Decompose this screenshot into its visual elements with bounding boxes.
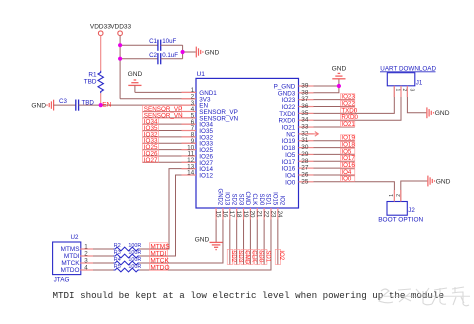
wire P_GND pin 39 <box>314 85 339 87</box>
pin 30 IO18 <box>282 144 314 152</box>
wire IO0 to J2 pin 1 <box>355 182 395 202</box>
svg-text:GND: GND <box>332 66 347 73</box>
svg-text:TBD: TBD <box>84 79 97 86</box>
junction P_GND node <box>337 84 341 88</box>
svg-text:IO0: IO0 <box>285 179 296 186</box>
junction C1 left rail <box>118 43 122 47</box>
ground (J1) <box>427 107 450 118</box>
svg-text:MTDI should be kept at a low e: MTDI should be kept at a low electric le… <box>53 290 444 301</box>
wire net IO17 stub <box>314 160 355 162</box>
wire net IO22 stub <box>314 106 355 108</box>
wire CLK pin 20 drop <box>249 220 251 265</box>
svg-text:IO0: IO0 <box>341 176 352 183</box>
wire SD2 pin 17 drop <box>229 220 231 265</box>
svg-text:SD2: SD2 <box>230 194 236 206</box>
svg-text:0.1uF: 0.1uF <box>162 52 178 59</box>
svg-text:MTDO: MTDO <box>150 264 169 271</box>
wire C2 left lead <box>120 58 158 60</box>
wire net RXD0 stub <box>314 119 355 121</box>
pin 12 IO27 <box>182 157 214 167</box>
net label IO4 <box>340 169 354 175</box>
svg-text:16: 16 <box>221 211 228 218</box>
svg-text:VDD33: VDD33 <box>90 24 111 31</box>
svg-text:CMD: CMD <box>244 250 250 264</box>
pin 7 IO35 <box>182 125 214 135</box>
no-connect marker pin 32 <box>306 132 318 137</box>
pin 1 GND1 <box>182 87 218 97</box>
wire net SENSOR_VN to pin 5 <box>143 117 196 119</box>
pin 31 IO19 <box>282 137 314 145</box>
wire net IO23 stub <box>314 99 355 101</box>
pin stub J1-2 <box>400 86 402 97</box>
svg-text:R3: R3 <box>114 250 121 256</box>
pin 3 EN <box>182 100 209 110</box>
net label TXD0 <box>340 107 354 113</box>
U2 pin 1 MTMS <box>61 244 93 254</box>
watermark <box>379 287 470 306</box>
net label MTDI <box>149 250 167 256</box>
pin 37 IO23 <box>282 96 314 104</box>
wire U2 pin to R3 <box>93 255 114 257</box>
pin 18 SD3 <box>235 194 243 220</box>
svg-text:J2: J2 <box>408 207 415 214</box>
pin 17 SD2 <box>228 194 236 220</box>
svg-text:SD1: SD1 <box>264 250 270 262</box>
ground (GND1 pin 1) <box>128 71 143 85</box>
wire EN junction to chip pin 3 <box>101 104 196 106</box>
wire U2 pin to R5 <box>93 269 114 271</box>
wire 3V3 rail to chip pin 2 <box>120 98 196 100</box>
svg-text:SD3: SD3 <box>237 250 243 262</box>
wire net TXD0 stub <box>314 112 355 114</box>
capacitor C3 TBD <box>59 98 94 111</box>
svg-text:2: 2 <box>401 89 407 92</box>
power port VDD33 (left) <box>90 24 111 36</box>
wire SD1 pin 22 drop <box>263 220 265 265</box>
pin 6 IO34 <box>182 119 214 129</box>
wire net IO34 to pin 6 <box>143 123 196 125</box>
net label CLK (rotated) <box>248 249 253 264</box>
svg-text:GND: GND <box>435 110 450 117</box>
net label IO16 <box>340 162 354 168</box>
wire stem to ground <box>338 79 340 86</box>
pin stub J1-3 <box>406 86 408 97</box>
wire RXD0 to J1 pin 2 <box>355 86 401 120</box>
pin 13 IO14 <box>182 163 214 173</box>
net label IO32 <box>142 131 158 137</box>
net label IO17 <box>340 155 354 161</box>
wire U2 pin to R2 <box>93 248 114 250</box>
wire GND3 pin 38 riser <box>314 86 339 93</box>
UART DOWNLOAD title <box>380 66 436 73</box>
svg-text:100R: 100R <box>128 257 141 263</box>
wire VDD33 left stem to R1 <box>100 36 102 71</box>
resistor R3 100R <box>114 250 142 258</box>
wire net IO35 to pin 7 <box>143 130 196 132</box>
svg-text:24: 24 <box>276 211 283 218</box>
wire R4 to net MTCK <box>140 262 141 264</box>
wire C1 left lead <box>120 44 158 46</box>
wire GND2 pin 15 stem <box>215 220 217 243</box>
wire VDD33 right stem down to 3V3 pin row <box>119 36 121 99</box>
pin stub J2-1 <box>393 190 395 202</box>
net label IO0 <box>340 176 354 182</box>
net label IO27 <box>142 156 158 162</box>
wire net IO21 stub <box>314 126 355 128</box>
wire right rail joining C1 C2 <box>182 45 184 59</box>
svg-text:GND: GND <box>195 236 210 243</box>
wire GND1 stem <box>134 85 136 92</box>
net label SENSOR_VP <box>142 105 181 111</box>
svg-text:SD0: SD0 <box>258 194 264 206</box>
svg-text:100R: 100R <box>128 250 141 256</box>
wire MTMS riser to chip pin 13 <box>141 169 196 249</box>
resistor R5 100R <box>114 264 142 272</box>
connector J2 <box>387 202 415 216</box>
svg-text:GND: GND <box>31 102 46 109</box>
svg-text:J1: J1 <box>416 79 423 86</box>
svg-text:MTCK: MTCK <box>61 260 80 267</box>
pin 32 NC <box>286 130 313 138</box>
pin 36 IO22 <box>282 103 314 111</box>
wire net IO5 stub <box>314 153 355 155</box>
junction GND branch right rail <box>181 50 185 54</box>
J1 pin numbers <box>394 89 414 92</box>
svg-text:19: 19 <box>242 211 249 218</box>
wire IO15 pin 23 to MTDO <box>141 220 271 271</box>
svg-text:22: 22 <box>262 211 269 218</box>
svg-text:GND: GND <box>205 50 220 57</box>
net label SD0 (rotated) <box>255 249 260 264</box>
net label IO33 <box>142 137 158 143</box>
pin 39 P_GND <box>274 83 314 91</box>
svg-text:EN: EN <box>102 102 111 109</box>
net label IO21 <box>340 121 354 127</box>
wire net IO25 to pin 10 <box>143 149 196 151</box>
pin 27 IO16 <box>282 165 314 173</box>
svg-text:R1: R1 <box>88 72 97 79</box>
svg-text:21: 21 <box>256 211 263 218</box>
wire net IO26 to pin 11 <box>143 155 196 157</box>
net label SD2 (rotated) <box>227 249 232 264</box>
svg-text:CLK: CLK <box>251 194 257 206</box>
wire R2 to net MTMS <box>140 248 141 250</box>
wire net IO33 to pin 9 <box>143 142 196 144</box>
wire GND to C3 <box>54 104 76 106</box>
wire net SENSOR_VP to pin 4 <box>143 110 196 112</box>
junction C2 left rail <box>118 57 122 61</box>
svg-text:IO2: IO2 <box>278 196 284 206</box>
net label IO19 <box>340 135 354 141</box>
pin 15 GND2 <box>214 189 222 220</box>
svg-text:IO27: IO27 <box>144 157 158 164</box>
pin 23 IO15 <box>269 192 277 219</box>
wire SD3 pin 18 drop <box>236 220 238 265</box>
wire J2 pin 2 to ground <box>401 181 428 202</box>
wire net IO4 stub <box>314 174 355 176</box>
svg-text:U1: U1 <box>197 71 206 78</box>
wire net IO18 stub <box>314 147 355 149</box>
svg-text:4: 4 <box>84 265 88 272</box>
svg-text:1: 1 <box>394 89 400 92</box>
pin 21 SD0 <box>256 194 264 220</box>
resistor R1 (TBD) <box>84 71 104 93</box>
svg-text:IO2: IO2 <box>278 250 284 260</box>
pin stub J2-2 <box>400 190 402 202</box>
wire U2 pin to R4 <box>93 262 114 264</box>
U2 pin 4 MTDO <box>61 265 93 275</box>
wire C2 right lead <box>161 58 183 60</box>
IC U1 (ESP32 module) <box>196 78 299 208</box>
net label MTMS <box>149 243 167 250</box>
wire net IO16 stub <box>314 167 355 169</box>
net label MTCK <box>149 257 167 264</box>
connector U2 (JTAG header) <box>53 234 81 283</box>
pin 35 TXD0 <box>279 110 313 118</box>
svg-text:R5: R5 <box>114 264 121 270</box>
svg-text:17: 17 <box>228 211 235 218</box>
pin 34 RXD0 <box>279 117 314 125</box>
wire MTDI riser to chip pin 14 <box>141 175 196 256</box>
svg-text:15: 15 <box>214 211 221 218</box>
svg-text:18: 18 <box>235 211 242 218</box>
pin 24 IO2 <box>276 196 284 220</box>
power port VDD33 (right) <box>110 24 131 36</box>
wire net IO0 stub <box>314 181 355 183</box>
U2 pin 3 MTCK <box>61 258 93 268</box>
svg-text:14: 14 <box>187 170 195 177</box>
ground (GND2) <box>195 236 223 249</box>
pin stub J1-1 <box>393 86 395 97</box>
net label SENSOR_VN <box>142 112 181 118</box>
svg-text:SD1: SD1 <box>265 194 271 206</box>
pin 38 GND3 <box>278 89 314 97</box>
net label CMD (rotated) <box>241 249 246 264</box>
pin 28 IO17 <box>282 158 314 166</box>
svg-text:VDD33: VDD33 <box>110 24 131 31</box>
pin 8 IO32 <box>182 132 214 142</box>
svg-text:SD0: SD0 <box>257 250 263 262</box>
wire C1 right lead <box>161 44 183 46</box>
svg-text:MTDI: MTDI <box>150 250 166 257</box>
wire J1 pin 3 to ground <box>407 86 426 113</box>
svg-text:MTDO: MTDO <box>61 267 80 274</box>
junction EN node <box>99 103 103 107</box>
wire R1 bottom to EN junction <box>100 93 102 105</box>
svg-text:R2: R2 <box>114 243 121 249</box>
svg-text:GND: GND <box>128 71 143 78</box>
svg-text:C3: C3 <box>59 98 67 105</box>
wire TXD0 to J1 pin 1 <box>355 86 395 114</box>
svg-text:20: 20 <box>249 211 256 218</box>
svg-text:BOOT OPTION: BOOT OPTION <box>378 216 423 223</box>
ground (C1/C2) <box>196 47 219 58</box>
pin 16 IO13 <box>221 192 229 219</box>
ground (P_GND) <box>332 66 347 79</box>
connector J1 <box>387 73 423 87</box>
pin 4 SENSOR_VP <box>182 106 238 116</box>
svg-text:IO12: IO12 <box>199 173 213 180</box>
wire R3 to net MTDI <box>140 255 141 257</box>
svg-text:U2: U2 <box>71 234 79 241</box>
svg-text:3: 3 <box>84 258 88 265</box>
net label IO22 <box>340 101 354 107</box>
pin 25 IO0 <box>285 178 313 186</box>
svg-text:JTAG: JTAG <box>54 276 70 283</box>
pin 26 IO4 <box>285 171 313 179</box>
pin 33 IO21 <box>282 124 314 132</box>
svg-text:2: 2 <box>84 251 88 258</box>
svg-text:MTCK: MTCK <box>150 257 169 264</box>
svg-text:C1: C1 <box>149 38 157 45</box>
net label IO26 <box>142 150 158 156</box>
svg-text:IO13: IO13 <box>224 192 230 206</box>
pin 5 SENSOR_VN <box>182 113 239 123</box>
resistor R4 100R <box>114 257 142 265</box>
pin 29 IO5 <box>285 151 313 159</box>
net label SD3 (rotated) <box>234 249 239 264</box>
svg-text:100R: 100R <box>128 243 141 249</box>
net label IO2 (rotated) <box>275 249 280 264</box>
svg-text:R4: R4 <box>114 257 121 263</box>
net label IO35 <box>142 125 158 131</box>
svg-text:MTMS: MTMS <box>150 243 170 250</box>
net label IO34 <box>142 118 158 124</box>
svg-text:C2: C2 <box>149 52 157 59</box>
wire GND1 to chip pin 1 <box>135 91 196 93</box>
svg-text:MTMS: MTMS <box>61 246 80 253</box>
wire IO2 pin 24 drop <box>277 220 279 265</box>
svg-text:IO15: IO15 <box>272 192 278 206</box>
svg-text:GND2: GND2 <box>217 189 223 206</box>
pin 22 SD1 <box>262 194 270 220</box>
capacitor C1 10uF <box>149 38 176 51</box>
pin 11 IO26 <box>182 151 214 161</box>
U2 pin 2 MTDI <box>64 251 93 261</box>
svg-text:10uF: 10uF <box>162 38 176 45</box>
net label SD1 (rotated) <box>262 249 267 264</box>
pin 20 CLK <box>249 194 257 220</box>
net label RXD0 <box>340 114 354 120</box>
wire SD0 pin 21 drop <box>256 220 258 265</box>
pin 10 IO25 <box>182 144 214 154</box>
wire CMD pin 19 drop <box>243 220 245 265</box>
wire IO13 pin 16 to MTCK <box>141 220 223 264</box>
svg-text:CMD: CMD <box>244 192 250 206</box>
ground (J2) <box>428 176 451 187</box>
net label IO18 <box>340 142 354 148</box>
svg-text:CLK: CLK <box>251 250 257 262</box>
wire C3 to EN junction <box>79 104 101 106</box>
J2 pin numbers <box>389 194 402 197</box>
pin 2 3V3 <box>182 93 212 103</box>
capacitor C2 0.1uF <box>149 52 178 64</box>
wire net IO32 to pin 8 <box>143 136 196 138</box>
wire net IO27 to pin 12 <box>143 161 196 163</box>
svg-text:25: 25 <box>301 178 309 185</box>
net label IO23 <box>340 94 354 100</box>
svg-text:3: 3 <box>408 89 414 92</box>
svg-text:100R: 100R <box>128 264 141 270</box>
svg-text:SD2: SD2 <box>230 250 236 262</box>
net label IO25 <box>142 144 158 150</box>
wire net IO19 stub <box>314 140 355 142</box>
pin 14 IO12 <box>182 170 214 180</box>
svg-text:IO21: IO21 <box>341 121 355 128</box>
pin 9 IO33 <box>182 138 214 148</box>
resistor R2 100R <box>114 243 142 251</box>
svg-text:1: 1 <box>84 244 88 251</box>
svg-text:23: 23 <box>269 211 276 218</box>
wire R5 to net MTDO <box>140 269 141 271</box>
net label IO5 <box>340 149 354 155</box>
svg-text:MTDI: MTDI <box>64 253 80 260</box>
ground (C3 left) <box>31 100 53 111</box>
svg-text:SD3: SD3 <box>237 194 243 206</box>
net label MTDO <box>149 264 167 271</box>
svg-text:GND: GND <box>436 178 451 185</box>
pin 19 CMD <box>242 192 250 220</box>
wire rail to GND of C1C2 <box>183 51 196 53</box>
